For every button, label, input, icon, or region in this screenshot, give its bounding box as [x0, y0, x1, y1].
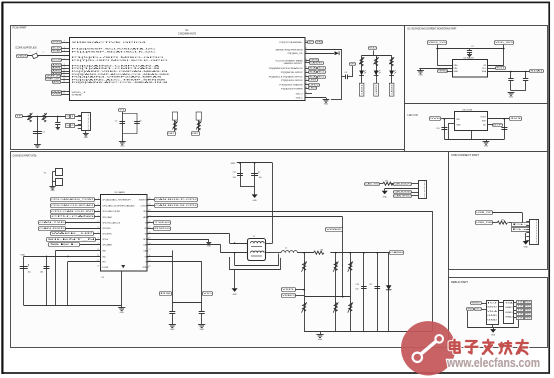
wire into T1 pin1: [230, 243, 248, 245]
svg-text:GND: GND: [454, 71, 459, 73]
svg-text:P7[1]/LED2 STATUS: P7[1]/LED2 STATUS: [280, 84, 304, 87]
wire C12 branch: [240, 163, 242, 187]
svg-text:C7: C7: [471, 46, 473, 48]
wire VDD rail to U2: [24, 256, 101, 258]
svg-text:RXD0: RXD0: [154, 228, 169, 230]
svg-text:CPU-STBY: CPU-STBY: [102, 234, 112, 236]
wire link between branches: [172, 302, 201, 304]
svg-text:P0[2]/AIN2-VREF-CMP/AN-MEAS-IN: P0[2]/AIN2-VREF-CMP/AN-MEAS-IN: [72, 70, 169, 73]
wire to P1 pin1: [482, 303, 486, 305]
resistor R2 (series): [42, 113, 47, 122]
wire branch x=172 down: [172, 250, 174, 311]
wire test net: [23, 116, 66, 118]
svg-text:LED3: LED3: [309, 88, 315, 90]
section box: PCAN PART: [11, 26, 405, 150]
ground (arrow) shield: [232, 288, 238, 296]
junction: [504, 118, 506, 120]
crystal Y2 load body: [56, 179, 63, 186]
junction: [444, 118, 446, 120]
wire J2 pin stub: [526, 229, 530, 231]
net label CAN-TXD: [39, 221, 67, 225]
wire LED column 2: [376, 55, 378, 83]
svg-text:GND: GND: [487, 315, 498, 317]
svg-text:AIN6: AIN6: [53, 81, 59, 84]
TVS diode D5: [386, 285, 392, 290]
junction: [503, 48, 505, 50]
svg-text:104: 104: [40, 272, 43, 274]
svg-text:13: 13: [63, 78, 65, 80]
svg-text:DC VOLTAGE AND CURRENT MONITOR: DC VOLTAGE AND CURRENT MONITORING PART: [408, 28, 457, 31]
svg-text:2: 2: [71, 125, 74, 127]
net label grid col1: [517, 309, 526, 312]
svg-text:SDAT: SDAT: [52, 50, 62, 53]
wire ground rail below U2: [24, 305, 122, 307]
watermark glyph 4: [499, 341, 511, 353]
wire U2 left pin: [94, 211, 100, 213]
svg-text:VSS: VSS: [72, 95, 83, 97]
net label left of pair: [309, 76, 318, 79]
net label LED3: [309, 87, 317, 90]
wire C15 branch: [46, 256, 48, 305]
net label CAN-BUS-N0: [394, 191, 412, 194]
wire T1 pin3 out: [266, 252, 282, 254]
capacitor C12: [237, 174, 243, 176]
wire stub to C7: [469, 49, 471, 51]
svg-text:P5[1]/MOSI GPIO1: P5[1]/MOSI GPIO1: [281, 72, 304, 74]
svg-text:VSPL: VSPL: [282, 289, 294, 291]
wire to P1 pin2: [482, 309, 486, 311]
svg-text:VOUT: VOUT: [480, 117, 486, 119]
svg-text:GND: GND: [418, 75, 423, 77]
svg-text:SDA: SDA: [482, 70, 487, 73]
ground stub mid S2: [206, 243, 211, 248]
net label VSS (U1 pin 17): [52, 93, 63, 96]
junction: [46, 256, 48, 258]
resistor divider upper: [333, 261, 338, 272]
wire C14 branch: [23, 256, 25, 305]
net label SDAT (U1 pin 4): [52, 50, 63, 53]
wire U3 SDA long: [488, 71, 530, 73]
op-amp U1 MCU CY8C24894 body: [70, 38, 306, 101]
net label CAN-SHLD: [394, 195, 412, 198]
capacitor (bus filter): [361, 287, 367, 289]
wire C7 to ground: [469, 53, 471, 55]
junction: [57, 116, 59, 118]
wire U1 data pin: [305, 68, 309, 70]
wire J2 pin stub: [526, 236, 530, 238]
wire U2 VDD right branch: [147, 256, 172, 258]
wire return horizontal B: [230, 269, 281, 271]
connector J3: [419, 181, 427, 199]
svg-text:SENSE-/P2[5] PWR MON: SENSE-/P2[5] PWR MON: [276, 49, 303, 51]
wire Y2 top stub: [53, 171, 56, 173]
junction: [363, 252, 365, 254]
capacitor C4: [346, 75, 348, 80]
wire top rail S3: [437, 48, 504, 50]
svg-text:TXD0: TXD0: [154, 222, 169, 224]
wire to ground arrow: [254, 187, 256, 195]
connector P2 debug header body: [504, 301, 514, 324]
svg-text:CPU-CAN0: CPU-CAN0: [102, 216, 112, 219]
capacitor C11: [501, 128, 507, 130]
wire U2 VIO pin: [68, 261, 101, 263]
junction: [335, 252, 337, 254]
wire U2 pin with gnd stub: [147, 239, 209, 241]
svg-text:VIO: VIO: [203, 293, 213, 295]
net label right of pair: [318, 71, 326, 74]
svg-text:GND: GND: [170, 329, 175, 331]
wire Y2 bottom stub: [53, 181, 56, 183]
svg-text:CPU-4: CPU-4: [102, 239, 109, 241]
wire C16 to ground: [172, 314, 174, 325]
ground below U1 right: [323, 100, 330, 106]
wire R1/R2 junction down: [37, 116, 39, 144]
voltage regulator U4 body: [455, 112, 488, 131]
wire U1 left pin 8: [61, 65, 69, 67]
wire VBUS down: [437, 44, 439, 65]
svg-text:16: 16: [63, 90, 65, 92]
wire U2 left pin: [94, 216, 100, 218]
wire bias column vertical: [342, 217, 344, 297]
svg-text:GND: GND: [505, 312, 514, 314]
resistor R3 (series): [314, 250, 325, 255]
svg-text:P5[2]/SCLK P5[3]/SS GPIO2: P5[2]/SCLK P5[3]/SS GPIO2: [269, 77, 304, 79]
svg-text:USB CONNECT PART: USB CONNECT PART: [451, 154, 480, 157]
net label VIO: [203, 292, 214, 296]
wire U3 VIN-: [419, 68, 452, 70]
wire U2 left pin: [94, 199, 100, 201]
transformer T1 (common-mode choke) body: [248, 239, 266, 261]
wire vertical right of U1: [341, 49, 343, 99]
svg-text:P0[5]/AIN5-ADC-TEMP-SENSE: P0[5]/AIN5-ADC-TEMP-SENSE: [72, 78, 168, 81]
wire stub to S2 ground: [320, 332, 322, 335]
wire cap column x=377.3: [377, 253, 379, 332]
connector pin label LED2: [374, 83, 379, 96]
net label (vertical) pull-up: [196, 112, 201, 120]
resistor R1 (series): [27, 113, 32, 122]
ferrite bead FB1: [32, 53, 38, 58]
svg-text:SDA1: SDA1: [530, 70, 542, 73]
ground below crystal: [119, 142, 126, 148]
wire U2 pin8: [95, 239, 100, 241]
junction: [67, 256, 69, 258]
wire U2 left pin: [94, 205, 100, 207]
svg-text:DEBUG PART: DEBUG PART: [451, 281, 469, 284]
LED D3: [374, 70, 381, 75]
svg-text:LED1: LED1: [309, 80, 316, 82]
svg-text:GND: GND: [509, 97, 514, 99]
wire U1 pin 20: [305, 80, 309, 82]
wire U4 GND down: [448, 124, 450, 140]
svg-text:C5: C5: [115, 121, 117, 123]
capacitor C5 (xtal): [120, 122, 126, 124]
wire U1 left pin 4: [61, 51, 69, 53]
ground below J1: [83, 134, 89, 139]
net label SDA1: [530, 70, 544, 73]
net label AIN0 (U1 pin 8): [52, 64, 62, 67]
wire U1 left pin 12: [61, 76, 69, 78]
svg-text:CAN-SHLD: CAN-SHLD: [394, 195, 412, 198]
svg-text:104: 104: [355, 289, 358, 291]
svg-text:3: 3: [64, 47, 65, 49]
wire T1 pin4 to VDD drop: [266, 243, 273, 245]
wire U1 pin 7 to GND: [305, 97, 326, 99]
wire U2 VIO right branch: [147, 261, 202, 263]
resistor divider lower: [302, 302, 307, 313]
net label pair row1 b: [71, 115, 75, 119]
svg-text:P1[0]/ISSP-SCLK/SDATA-I2C: P1[0]/ISSP-SCLK/SDATA-I2C: [72, 48, 157, 51]
wire U2 right pin: [147, 222, 153, 224]
wire J3 pin4: [411, 195, 418, 197]
wire USB_DP: [492, 212, 522, 214]
svg-text:3V3: 3V3: [510, 118, 520, 120]
svg-text:C19: C19: [369, 284, 372, 286]
capacitor C15: [44, 267, 50, 269]
wire branch x=202 down: [201, 262, 203, 312]
wire stub to ground arrow: [493, 328, 495, 330]
svg-text:CAN/MOD DETECT: CAN/MOD DETECT: [284, 62, 304, 65]
op-amp U3 current monitor body: [453, 60, 488, 78]
resistor divider lower: [348, 302, 353, 313]
svg-text:P0[6]/AIN6-ADC-COL-MEAS-IN-B: P0[6]/AIN6-ADC-COL-MEAS-IN-B: [72, 81, 170, 84]
capacitor C10: [441, 128, 447, 130]
net label grid col1: [517, 301, 526, 304]
svg-text:12: 12: [63, 75, 65, 77]
net label VMON: [310, 59, 319, 62]
net label SP: [308, 41, 315, 44]
wire U4 BYP: [488, 124, 493, 126]
net label SCL1: [496, 67, 506, 70]
resistor divider upper: [302, 261, 307, 272]
net label SCLK (U1 pin 3): [52, 47, 62, 50]
svg-text:GND: GND: [318, 339, 323, 341]
wire debug left drop: [467, 311, 469, 328]
svg-text:CAN-BUS-N0: CAN-BUS-N0: [394, 191, 410, 194]
wire J2 pin stub: [526, 225, 530, 227]
power flag VDD_3V3: [495, 41, 514, 45]
wire P2 to label grid: [514, 313, 516, 315]
wire P1-P2 link: [498, 310, 504, 312]
section box: DC VOLTAGE MONITORING PART: [405, 26, 548, 104]
net label grid col2: [525, 301, 533, 304]
connector J1: [82, 113, 91, 131]
svg-text:GND: GND: [200, 329, 205, 331]
svg-text:C4: C4: [66, 125, 69, 127]
svg-text:SCL: SCL: [318, 72, 324, 74]
svg-text:U2 CANFD: U2 CANFD: [115, 191, 126, 194]
wire VDD drop to T1: [272, 163, 274, 243]
svg-text:CCOMP_ADAPTER_BUS: CCOMP_ADAPTER_BUS: [15, 47, 37, 50]
wire bottom to ground net: [331, 99, 342, 101]
svg-text:4: 4: [64, 50, 65, 52]
wire output cap branch: [504, 119, 506, 139]
net label VREF on bias column: [326, 228, 345, 232]
svg-text:CPU-CAN-CLK-INT: CPU-CAN-CLK-INT: [102, 210, 121, 213]
transceiver U2 body: [101, 195, 148, 272]
junction: [436, 48, 438, 50]
junction: [254, 162, 256, 164]
wire VBUS to U1: [27, 55, 69, 57]
svg-text:GND: GND: [484, 146, 489, 148]
wire R5 to flag: [391, 183, 394, 185]
svg-text:10u: 10u: [28, 272, 31, 274]
resistor R6: [374, 57, 379, 66]
wire VDD rail S2: [237, 162, 273, 164]
wire U2 right pin: [147, 228, 153, 230]
wire U2 to T1 lower: [147, 244, 221, 246]
resistor R5: [359, 57, 364, 66]
wire VDD flag to LED rail: [373, 50, 375, 55]
wire U1 left pin 10: [61, 71, 69, 73]
wire TVS column: [388, 253, 390, 332]
svg-text:GND: GND: [524, 247, 529, 249]
junction: [303, 252, 305, 254]
wire U1 left pin 6: [61, 59, 69, 61]
svg-text:GND: GND: [383, 196, 388, 198]
net label USB_DM: [476, 221, 493, 225]
wire U1 left pin 9: [61, 68, 69, 70]
wire to ground arrow: [525, 240, 527, 243]
connector pin label LED1: [359, 83, 364, 96]
svg-text:GND: GND: [505, 316, 514, 318]
LED D2: [359, 70, 366, 75]
net label VREF2: [282, 294, 296, 298]
svg-text:SWC: SWC: [471, 303, 482, 305]
svg-text:XRES: XRES: [52, 42, 62, 44]
watermark glyph 3: [483, 340, 494, 354]
svg-text:CANH: CANH: [390, 251, 404, 254]
capacitor C14 (bulk): [20, 264, 29, 268]
wire U1 pin 25: [305, 60, 309, 62]
capacitor C17: [199, 312, 205, 314]
wire U2 right pin: [147, 199, 154, 201]
wire U2 pin9: [80, 244, 101, 246]
wire P2 to label grid: [514, 317, 516, 319]
svg-text:CPU-CAN-CLK-SPI-AD1: CPU-CAN-CLK-SPI-AD1: [51, 204, 93, 207]
svg-text:P2[7]/VCCA SENSE+: P2[7]/VCCA SENSE+: [280, 41, 304, 44]
svg-text:SCL1: SCL1: [496, 68, 504, 70]
power flag 5V0: [430, 117, 441, 121]
svg-text:10: 10: [63, 70, 65, 72]
LED supply rail wire: [362, 55, 392, 57]
svg-text:VDD_1: VDD_1: [72, 92, 88, 94]
power flag 3V3: [510, 117, 522, 121]
capacitor C9: [523, 79, 528, 81]
watermark glyph 2: [466, 341, 478, 353]
wire P2 to label grid: [514, 302, 516, 304]
svg-text:5V0: 5V0: [430, 118, 439, 120]
crystal net label Y1: [119, 109, 126, 112]
svg-text:DCON: DCON: [52, 60, 61, 62]
wire U1 pin 27 to C net: [305, 49, 342, 51]
net label grid col2: [525, 317, 533, 320]
net label BYP: [493, 124, 504, 127]
net label VREF_IN (U1 pin 12): [46, 75, 61, 78]
wire U1 left pin 17: [61, 94, 69, 96]
svg-text:6: 6: [64, 58, 65, 60]
svg-text:LDO 3.3V: LDO 3.3V: [408, 114, 419, 117]
wire junction to C2: [57, 116, 59, 122]
capacitor C8: [508, 79, 513, 81]
wire J2 pin stub: [526, 240, 530, 242]
wire divider column x=335.7: [335, 253, 337, 332]
wire to connector J1 pin1: [75, 116, 81, 118]
wire VIO branch down: [67, 262, 69, 306]
wire U1 left pin 16: [61, 91, 69, 93]
svg-text:USB_DP: USB_DP: [476, 212, 493, 214]
net label grid col1: [517, 313, 526, 316]
wire stub to ground arrow: [384, 189, 386, 191]
svg-text:10u: 10u: [259, 177, 262, 179]
svg-text:GND: GND: [487, 320, 498, 322]
net label left of pair: [309, 67, 318, 70]
net label VDD (LED rail): [369, 47, 377, 50]
net label pair row2 a: [66, 124, 70, 128]
svg-text:VIN: VIN: [456, 119, 460, 121]
svg-text:VSS_2: VSS_2: [296, 98, 304, 100]
wire ground rail S3: [511, 90, 526, 92]
ground (arrow) below J2: [523, 241, 529, 249]
capacitor C13: [251, 171, 259, 175]
svg-text:VIO: VIO: [102, 261, 106, 263]
wire bend to T1 pin1: [229, 234, 231, 243]
svg-text:L1: L1: [285, 248, 287, 250]
svg-text:CAN BUS PART (FD): CAN BUS PART (FD): [13, 154, 37, 157]
wire CAN line to TVS/flag: [330, 252, 390, 254]
ground left S3: [417, 71, 424, 77]
wire C9 down: [525, 80, 527, 91]
wire stub to ground S4: [486, 139, 488, 141]
svg-text:GND: GND: [102, 250, 106, 252]
net label grid col1: [517, 305, 526, 308]
net label LED2: [309, 84, 320, 87]
wire CANH drop right: [432, 211, 434, 331]
svg-text:SCL: SCL: [318, 77, 324, 79]
svg-text:GND: GND: [120, 146, 125, 148]
ground below C1: [34, 145, 41, 148]
svg-text:PCAN PART: PCAN PART: [13, 27, 28, 30]
wire CANH long: [147, 211, 433, 213]
wire return horizontal A: [235, 265, 279, 267]
crystal Y2 body: [56, 169, 63, 176]
net label (vertical) pull-up: [172, 112, 177, 120]
wire P2 to label grid: [514, 306, 516, 308]
wire U1 pin 19: [305, 84, 309, 86]
wire shield drop: [234, 270, 236, 288]
svg-text:BYP: BYP: [482, 121, 487, 123]
ground below C8/C9: [508, 93, 515, 99]
svg-text:104: 104: [233, 177, 236, 179]
net label pair row2 b: [71, 124, 75, 128]
net label CANH out: [390, 251, 405, 255]
net label AIN2 (U1 pin 10): [52, 70, 62, 73]
net label SEL: [49, 243, 80, 247]
wire U2 exposed pad to ground: [121, 271, 123, 308]
svg-text:SCL: SCL: [318, 68, 324, 70]
wire LED column 1: [361, 55, 363, 83]
svg-text:GND: GND: [232, 294, 237, 296]
svg-text:SILENT_N: SILENT_N: [47, 239, 98, 241]
wire vertical from C4: [352, 66, 354, 77]
ground below U2: [118, 308, 125, 315]
wire J1 pin stub: [78, 124, 82, 126]
net label CAN bus: [155, 204, 199, 208]
resistor divider upper: [348, 261, 353, 272]
ground below C2: [56, 128, 60, 130]
wire U1 pin 24: [305, 62, 309, 64]
net label CAN-BUS-P0: [394, 183, 412, 186]
svg-text:WAKE_UP: WAKE_UP: [51, 232, 96, 235]
